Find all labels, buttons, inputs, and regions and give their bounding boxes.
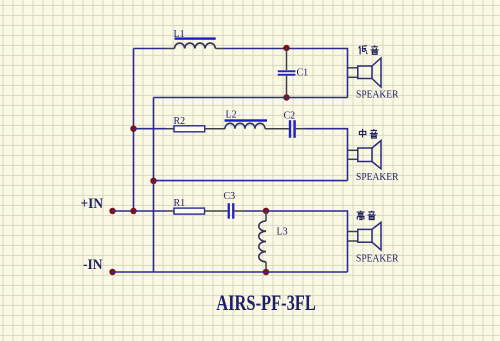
svg-text:SPEAKER: SPEAKER [356,89,399,100]
wire: R1 to C3 pin [205,210,228,212]
svg-text:SPEAKER: SPEAKER [356,253,399,264]
svg-text:R1: R1 [174,198,186,209]
svg-text:L1: L1 [174,29,185,40]
wire: row3 to mid speaker [305,129,348,181]
label tweeter chinese 高音 [357,211,376,220]
wire: +IN to bus [113,210,134,212]
wire: L3 bottom pin [265,262,267,272]
inductor L3 [259,221,266,262]
wire: second bus vertical from row2 to -IN row [153,98,155,273]
node: C1 top junction [283,45,289,51]
wire: row5 to tweeter [266,211,348,272]
wire: row2 [154,97,348,99]
speaker SP3 pins [348,232,358,242]
node: row3 tap junction [130,126,136,132]
svg-text:-IN: -IN [83,257,103,273]
wire: left bus vertical from top row to +IN row [133,49,135,212]
core bar of L1 [175,37,216,39]
capacitor C3 [228,203,235,219]
svg-text:C1: C1 [297,68,309,79]
node: bus bottom junction [130,208,136,214]
wire: row1 left segment [134,48,167,50]
speaker SP2 pins [348,150,358,159]
wire: L1 left pin [166,48,175,50]
svg-text:C2: C2 [284,110,296,121]
node: L3 top junction [263,208,269,214]
wire: C2 right pin [296,128,305,130]
label woofer chinese 低音 [359,45,379,54]
wire: row5 left segment [134,210,167,212]
svg-text:AIRS-PF-3FL: AIRS-PF-3FL [216,290,315,315]
wire: row4 [154,180,348,182]
svg-text:L2: L2 [226,110,237,121]
resistor R1 [174,208,205,214]
svg-text:C3: C3 [224,191,236,202]
speaker SP1 (woofer) [358,58,381,87]
node: +IN terminal [109,208,115,214]
resistor R2 [174,126,205,132]
wire: row6 (-IN bus) [113,271,348,273]
node: L3 bottom junction [263,269,269,275]
wire: R2 left pin [166,128,174,130]
node: row4 tap junction [150,178,156,184]
node: C1 bottom junction [283,94,289,100]
inductor L1 [175,43,216,48]
wire: row3 left segment [134,128,167,130]
speaker SP3 (tweeter) [358,222,381,250]
wire: row1 to C1 node [225,48,287,50]
svg-text:+IN: +IN [81,196,104,212]
wire: R2 to L2 pin [205,128,225,130]
capacitor C2 [289,120,296,138]
svg-text:SPEAKER: SPEAKER [356,172,399,183]
inductor L2 [225,123,265,128]
wire: C1 top pin [286,49,288,71]
speaker SP1 pins [348,68,358,78]
wire: C3 right pin [234,210,245,212]
label midrange chinese 中音 [359,129,377,138]
wire: row1 C1 node to speaker corner [287,49,348,98]
wire: row5 to L3 node [245,210,266,212]
wire: C1 bottom pin [286,76,288,98]
speaker SP2 (midrange) [358,141,381,169]
wire: R1 left pin [166,210,174,212]
wire: L1 right pin [216,48,226,50]
wire: L3 top pin [265,211,267,221]
wire: L2 to C2 pin [265,128,289,130]
core bar of L2 [225,119,268,121]
svg-text:L3: L3 [277,226,288,237]
svg-text:R2: R2 [174,116,186,127]
capacitor C1 [278,70,296,75]
node: -IN terminal [109,269,115,275]
